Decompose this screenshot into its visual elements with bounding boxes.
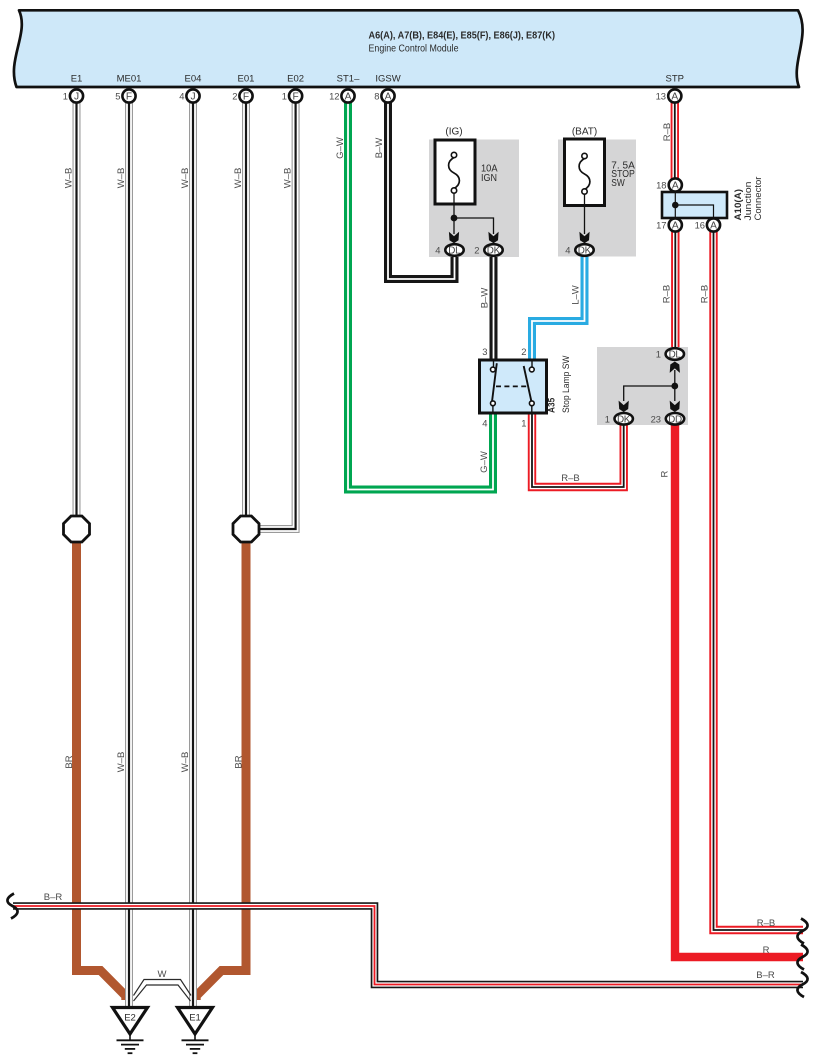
ground E1 triangle [178,1008,213,1035]
wire G-W ST1 to stop lamp SW pin4 [348,96,493,490]
wire W-B E01 [242,96,250,518]
connector oval DL (IG) pin4 [445,244,463,256]
fuse 10A IGN symbol [449,152,460,193]
svg-text:E1: E1 [189,1013,201,1024]
wire DL oval internal leads [624,370,675,401]
svg-text:Connector: Connector [753,177,764,221]
svg-text:B–R: B–R [756,970,775,981]
svg-text:W–B: W–B [283,168,294,189]
svg-text:4: 4 [435,245,440,256]
svg-text:A35: A35 [547,397,558,413]
wire R-B DK oval to stop lamp SW pin1 [532,412,624,487]
wire W-B E04 [189,96,197,1008]
wire B-W fuse DK to stop lamp SW pin3 [490,252,498,362]
svg-text:A: A [671,91,678,102]
svg-text:E04: E04 [185,74,202,85]
ECM pin circle 13(A) STP [668,89,681,102]
ECM band A6(A) A7(B) E84(E) E85(F) E86(J) E87(K) Engine Control Module [14,10,803,87]
svg-text:L–W: L–W [571,285,582,305]
svg-text:17: 17 [656,220,666,231]
wire R-B STP to junction connector pin18 [671,96,679,180]
edge break squiggle B-R left [7,894,17,919]
svg-text:E2: E2 [124,1013,136,1024]
svg-text:A: A [345,91,352,102]
node junction dot A10 [672,202,679,209]
svg-text:W–B: W–B [64,168,75,189]
svg-text:DK: DK [578,246,592,257]
svg-text:8: 8 [374,91,379,102]
A10 pin circle 17(A) [669,218,682,231]
gray panel (BAT) fuse [558,140,636,257]
connector oval DD pin23 (gray box) [666,413,684,425]
svg-text:(IG): (IG) [445,127,462,138]
fuse 7.5A STOP SW symbol [579,153,590,194]
connector oval DK pin1 (gray box) [615,413,633,425]
A10 pin circle 16(A) [707,218,720,231]
connector oval DK (IG) pin2 [484,244,502,256]
gray panel DL/DK/DD connector group [597,347,688,425]
ECM pin circle 2(F) E01 [239,89,252,102]
svg-text:B–R: B–R [44,892,63,903]
svg-text:SW: SW [611,178,625,189]
svg-text:E01: E01 [238,74,255,85]
arrow into DD oval [670,401,680,412]
svg-text:3: 3 [482,346,487,357]
svg-text:W–B: W–B [116,752,127,773]
svg-text:BR: BR [64,755,75,768]
svg-text:Stop Lamp SW: Stop Lamp SW [561,355,572,413]
svg-text:W–B: W–B [180,752,191,773]
svg-text:R–B: R–B [662,285,673,303]
svg-text:A6(A), A7(B), E84(E), E85(F),: A6(A), A7(B), E84(E), E85(F), E86(J), E8… [369,31,556,42]
svg-text:2: 2 [232,91,237,102]
wire W-B E1 [73,96,81,518]
svg-text:DD: DD [668,414,682,425]
svg-text:R–B: R–B [561,473,579,484]
svg-text:DK: DK [617,414,631,425]
svg-text:R: R [660,470,671,477]
svg-text:R: R [763,945,770,956]
ECM pin circle 1(F) E02 [289,89,302,102]
wire B-W IGSW to fuse DL [388,96,455,279]
svg-text:A: A [710,220,717,231]
node junction dot under IGN fuse [451,215,458,222]
wire R-B junction pin16 to right edge [714,230,804,930]
svg-text:R–B: R–B [700,285,711,303]
arrow into DL (IG) [449,232,459,243]
svg-text:ST1–: ST1– [337,74,360,85]
svg-text:4: 4 [179,91,184,102]
svg-text:(BAT): (BAT) [572,127,597,138]
junction connector A10(A) box [662,192,727,218]
fuse 10A IGN box [435,140,475,204]
svg-text:BR: BR [234,755,245,768]
svg-text:DL: DL [669,350,682,361]
wire W-B ME01 [125,96,133,1008]
svg-text:1: 1 [282,91,287,102]
ECM pin circle 12(A) ST1- [341,89,354,102]
svg-text:G–W: G–W [335,137,346,159]
svg-text:G–W: G–W [479,451,490,473]
svg-text:1: 1 [605,413,610,424]
svg-text:B–W: B–W [374,138,385,159]
wire L-W fuse DK(BAT) to stop lamp SW pin2 [532,252,585,362]
edge break squiggle R-B right [797,919,807,944]
svg-text:DL: DL [448,246,461,257]
svg-text:DK: DK [487,246,501,257]
svg-text:W–B: W–B [116,168,127,189]
svg-text:2: 2 [521,346,526,357]
svg-text:1: 1 [656,349,661,360]
svg-text:23: 23 [651,413,661,424]
svg-text:16: 16 [695,220,705,231]
wire R-B junction pin17 to DL oval [671,230,679,350]
ground E2 triangle [113,1008,148,1035]
ground E1 bars [182,1034,209,1053]
wire W-B E02 [259,96,296,529]
fuse 7.5A STOP SW box [565,139,605,206]
svg-text:13: 13 [656,91,666,102]
svg-text:12: 12 [329,91,339,102]
ECM pin circle 8(A) IGSW [381,89,394,102]
stop lamp switch internals [491,362,535,412]
arrow into DK oval [619,401,629,412]
svg-text:1: 1 [521,418,526,429]
svg-text:R–B: R–B [662,123,673,141]
svg-text:F: F [243,91,249,102]
svg-text:18: 18 [656,180,666,191]
stop lamp switch A35 box [480,360,547,413]
node junction dot gray box [671,383,678,390]
svg-text:W–B: W–B [233,168,244,189]
connector oval DL pin1 (gray box) [666,348,684,360]
splice octagon E01 column [233,516,259,542]
svg-text:ME01: ME01 [117,74,142,85]
svg-text:A: A [672,220,679,231]
svg-text:2: 2 [474,245,479,256]
wire fuse IGN internal leads [454,193,494,234]
svg-text:B–W: B–W [480,288,491,309]
svg-text:E02: E02 [287,74,304,85]
wire fuse STOP SW internal lead [584,194,586,234]
edge break squiggle R right [797,945,807,970]
wire R DD oval to right edge [675,423,803,957]
wire BR E01-to-E1-ground [196,540,246,1000]
svg-text:A: A [385,91,392,102]
svg-text:1: 1 [63,91,68,102]
connector oval DK (BAT) pin4 [575,244,593,256]
svg-text:F: F [126,91,132,102]
ECM pin circle 5(F) ME01 [122,89,135,102]
arrow into DK (IG) [488,232,498,243]
svg-text:E1: E1 [71,74,83,85]
svg-text:R–B: R–B [757,918,775,929]
gray panel (IG) fuse [429,140,519,258]
svg-text:4: 4 [482,418,487,429]
svg-text:A: A [672,180,679,191]
ground E2 bars [117,1034,144,1053]
splice octagon E1 column [64,516,90,542]
svg-text:J: J [190,91,195,102]
svg-text:5: 5 [115,91,120,102]
edge break squiggle B-R right [797,972,807,997]
svg-text:STP: STP [666,74,684,85]
svg-text:J: J [74,91,79,102]
A10 pin circle 18(A) [669,178,682,191]
svg-text:IGSW: IGSW [375,74,400,85]
svg-text:Engine Control Module: Engine Control Module [369,44,459,55]
svg-text:W–B: W–B [180,168,191,189]
svg-text:W: W [158,969,167,980]
ECM pin circle 4(J) E04 [186,89,199,102]
svg-text:IGN: IGN [481,173,497,184]
arrow up into DL oval [670,362,680,373]
ECM pin circle 1(J) E1 [70,89,83,102]
wire B-R left edge to right edge [13,906,803,985]
arrow into DK (BAT) [579,232,589,243]
wire BR E1-to-E2-ground [77,540,126,1000]
junction connector internal leads [675,192,713,218]
wire W jumper between E2 and E1 grounds [134,980,192,1002]
svg-text:F: F [292,91,298,102]
svg-text:4: 4 [565,245,570,256]
